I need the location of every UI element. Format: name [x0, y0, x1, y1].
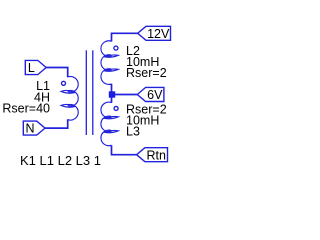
- port flag L: [25, 60, 46, 74]
- svg-text:Rser=40: Rser=40: [2, 101, 50, 115]
- wire from L2 top to flag 12V: [112, 33, 138, 41]
- transformer core line 1: [85, 50, 87, 135]
- phase dot of L2: [114, 46, 118, 50]
- wire from L2 bottom through junction to L3 top: [111, 84, 113, 103]
- svg-text:N: N: [25, 122, 34, 136]
- inductor L2 winding: [101, 41, 118, 85]
- svg-text:L: L: [28, 61, 35, 75]
- port flag N: [23, 121, 45, 135]
- svg-text:K1 L1 L2 L3 1: K1 L1 L2 L3 1: [20, 153, 101, 168]
- phase dot of L3: [114, 106, 118, 110]
- transformer core line 2: [92, 50, 94, 135]
- wire from flag L to L1 top: [46, 68, 67, 78]
- wire from junction to flag 6V: [112, 94, 138, 96]
- svg-text:L3: L3: [126, 124, 140, 138]
- inductor L3 winding: [101, 102, 118, 146]
- wire from L3 bottom to flag Rtn: [112, 145, 137, 155]
- svg-text:6V: 6V: [147, 88, 163, 102]
- node junction (6V net): [109, 91, 115, 97]
- port flag 6V: [137, 87, 164, 101]
- wire from flag N to L1 bottom: [45, 119, 68, 128]
- phase dot of L1: [62, 81, 66, 85]
- svg-text:Rser=2: Rser=2: [126, 66, 167, 80]
- svg-text:12V: 12V: [147, 27, 170, 41]
- port flag 12V: [138, 26, 171, 40]
- port flag Rtn: [137, 148, 168, 162]
- svg-text:Rtn: Rtn: [146, 148, 166, 162]
- inductor L1 winding: [61, 76, 78, 120]
